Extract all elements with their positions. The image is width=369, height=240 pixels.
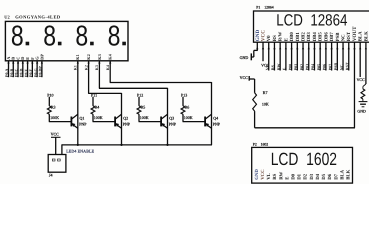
wire K1 to Q1 collector: [77, 61, 79, 145]
svg-text:8: 8: [11, 21, 24, 53]
svg-text:DB4: DB4: [312, 32, 318, 42]
LCD pin 4 wire stub: [273, 42, 275, 70]
svg-text:VCC: VCC: [240, 75, 249, 80]
svg-text:R5: R5: [141, 104, 146, 109]
U2 segment pin 2 wire stub: [12, 61, 14, 77]
svg-text:P01: P01: [293, 64, 298, 70]
bus corner down to J4: [61, 144, 63, 154]
svg-text:VCC: VCC: [51, 132, 60, 137]
svg-text:E: E: [282, 67, 287, 70]
resistor R3 zigzag: [47, 106, 51, 114]
wire K2 down to Q2: [121, 93, 123, 145]
svg-text:P12: P12: [137, 92, 143, 97]
svg-text:PSB: PSB: [333, 63, 338, 71]
svg-text:V0: V0: [266, 35, 272, 41]
LCD pin 9 wire stub: [302, 42, 304, 70]
svg-text:K3: K3: [97, 54, 102, 60]
svg-text:P2: P2: [253, 143, 257, 147]
wire R7 to VOUT riser: [254, 111, 256, 128]
7-segment display U2 digit 4 decimal point: [122, 42, 126, 46]
7-segment display U2 body box: [5, 21, 128, 60]
wire K3 vertical drop: [98, 61, 100, 89]
transistor Q4 base bar: [204, 117, 206, 127]
wire resistor to base: [138, 114, 140, 121]
svg-text:DB2: DB2: [300, 32, 306, 42]
svg-text:J4: J4: [49, 172, 53, 177]
transistor Q2 base bar: [114, 117, 116, 127]
J4 pad 2: [58, 159, 61, 161]
U2 segment pin 8 wire stub: [41, 61, 43, 77]
wire resistor to base: [48, 114, 50, 121]
U2 segment pin 6 wire stub: [31, 61, 33, 77]
wire K2 horizontal run: [88, 92, 121, 94]
transistor Q4 emitter diagonal: [205, 124, 211, 129]
U2 segment pin 4 wire stub: [22, 61, 24, 77]
svg-text:DB5: DB5: [318, 32, 324, 42]
svg-text:E: E: [283, 38, 289, 41]
svg-text:GND: GND: [357, 110, 366, 114]
svg-text:10K: 10K: [262, 102, 269, 107]
svg-text:K2: K2: [84, 65, 88, 70]
svg-text:DB6: DB6: [323, 32, 329, 42]
svg-text:DB3: DB3: [306, 32, 312, 42]
svg-text:K2: K2: [86, 54, 91, 60]
svg-text:P1: P1: [256, 6, 260, 10]
ground symbol (backlight): [359, 101, 368, 103]
transistor Q3 collector diagonal: [161, 114, 167, 119]
LCD pin 17 wire stub: [348, 42, 350, 70]
svg-text:12864: 12864: [264, 6, 274, 10]
junction dot: [77, 144, 79, 146]
transistor Q3 emitter arrow (PNP): [162, 123, 166, 127]
wire K4 vertical drop: [109, 61, 111, 83]
svg-text:PNP: PNP: [213, 121, 221, 126]
svg-text:BLK: BLK: [346, 169, 352, 179]
svg-text:K1: K1: [74, 65, 78, 70]
transistor Q2 collector diagonal: [115, 114, 121, 119]
resistor R5 zigzag: [137, 106, 141, 114]
svg-text:RS: RS: [270, 64, 275, 70]
svg-text:D3: D3: [309, 173, 315, 179]
svg-text:BLK: BLK: [363, 31, 369, 41]
svg-text:D2: D2: [303, 173, 309, 179]
svg-text:D4: D4: [315, 173, 321, 179]
svg-text:P07: P07: [327, 64, 332, 70]
wire LED enable bus: [62, 144, 212, 146]
LCD pin 6 wire stub: [285, 42, 287, 70]
resistor R4 zigzag: [91, 106, 95, 114]
resistor R6 zigzag: [181, 106, 185, 114]
svg-text:DP: DP: [39, 54, 44, 60]
svg-text:1602: 1602: [261, 143, 269, 147]
LCD pin 15 wire stub: [336, 42, 338, 70]
transistor Q1 emitter diagonal: [71, 124, 77, 129]
svg-text:LED4 ENABLE: LED4 ENABLE: [66, 149, 94, 154]
7-segment display U2 digit 2 decimal point: [58, 42, 62, 46]
svg-text:E: E: [284, 177, 290, 180]
svg-text:Q1: Q1: [80, 115, 85, 120]
svg-text:NC: NC: [339, 64, 344, 70]
wire P12 to resistor: [138, 97, 140, 106]
svg-text:GND: GND: [240, 55, 249, 60]
LCD 12864 box: [254, 11, 369, 42]
svg-text:R4: R4: [95, 104, 100, 109]
svg-text:DB0: DB0: [289, 32, 295, 42]
wire R8 to ground: [362, 99, 364, 101]
svg-text:Q2: Q2: [123, 115, 128, 120]
U2 segment pin 3 wire stub: [17, 61, 19, 77]
transistor Q3 base bar: [160, 117, 162, 127]
svg-text:PNP: PNP: [123, 121, 131, 126]
LCD pin 5 wire stub: [279, 42, 281, 70]
wire K3 horizontal run: [99, 87, 168, 89]
svg-text:P02: P02: [299, 64, 304, 70]
svg-text:8: 8: [75, 21, 88, 53]
wire K2 vertical drop: [88, 61, 90, 94]
svg-text:RS: RS: [272, 173, 278, 179]
svg-text:Q3: Q3: [169, 115, 174, 120]
U2 digit pin K4 arrowhead: [109, 61, 111, 64]
wire K4 horizontal run: [110, 82, 212, 84]
svg-text:K1: K1: [75, 54, 80, 60]
svg-text:P06: P06: [322, 64, 327, 70]
svg-text:GONGYANG-4LED: GONGYANG-4LED: [15, 15, 61, 20]
wire VCC bar to R7: [249, 78, 254, 80]
svg-text:P0.DP: P0.DP: [38, 66, 43, 77]
wire resistor to base: [92, 114, 94, 121]
7-segment display U2 digit 3 decimal point: [90, 42, 94, 46]
transistor Q1 collector diagonal: [71, 114, 77, 119]
svg-text:RS: RS: [272, 35, 278, 41]
LCD pin 8 wire stub: [296, 42, 298, 70]
svg-text:VCC: VCC: [260, 30, 266, 41]
svg-text:P10: P10: [47, 92, 53, 97]
J4 pad 1: [52, 159, 55, 161]
transistor Q4 collector diagonal: [205, 114, 211, 119]
LCD pin 14 wire stub: [331, 42, 333, 70]
svg-text:D5: D5: [321, 173, 327, 179]
transistor Q1 base bar: [70, 117, 72, 127]
svg-text:U2: U2: [4, 15, 9, 20]
svg-text:VCC: VCC: [260, 169, 266, 180]
transistor Q3 emitter diagonal: [161, 124, 167, 129]
svg-text:R3: R3: [51, 104, 56, 109]
wire K4 down to Q4: [211, 82, 213, 145]
ground bar symbol (LCD pin1): [250, 53, 252, 60]
svg-text:DB1: DB1: [295, 32, 301, 42]
resistor R8 zigzag: [361, 89, 365, 99]
svg-text:LCD 12864: LCD 12864: [276, 12, 347, 30]
wire P10 to resistor: [48, 97, 50, 106]
svg-text:RW: RW: [278, 172, 284, 180]
svg-text:VOUT: VOUT: [352, 26, 358, 41]
svg-text:R6: R6: [185, 104, 190, 109]
svg-text:PSB: PSB: [335, 32, 341, 42]
svg-text:P03: P03: [304, 64, 309, 70]
LCD pin 16 wire stub: [342, 42, 344, 70]
transistor Q1 emitter arrow (PNP): [72, 123, 76, 127]
svg-text:100K: 100K: [140, 115, 149, 120]
svg-text:R7: R7: [263, 90, 268, 95]
svg-text:K4: K4: [108, 53, 113, 59]
svg-text:PNP: PNP: [79, 121, 87, 126]
LCD pin 18 VOUT wire riser: [353, 42, 355, 128]
svg-text:PNP: PNP: [169, 121, 177, 126]
svg-text:Q4: Q4: [213, 115, 218, 120]
svg-text:100K: 100K: [184, 115, 193, 120]
svg-text:P11: P11: [91, 92, 97, 97]
svg-text:K3: K3: [95, 65, 99, 70]
svg-text:BLA: BLA: [358, 31, 364, 41]
svg-text:8: 8: [43, 21, 56, 53]
LCD pin 20 BLK wire: [365, 42, 367, 84]
svg-text:LCD 1602: LCD 1602: [271, 149, 337, 169]
LCD pin 11 wire stub: [313, 42, 315, 70]
junction dot: [120, 144, 122, 146]
7-segment display U2 digit 1 decimal point: [26, 42, 30, 46]
svg-text:100K: 100K: [50, 115, 59, 120]
svg-text:8: 8: [108, 21, 121, 53]
transistor Q2 emitter diagonal: [115, 124, 121, 129]
svg-text:D1: D1: [297, 173, 303, 179]
svg-text:V0: V0: [264, 65, 269, 70]
LCD pin 1 GND wire: [256, 42, 258, 50]
LCD pin 3 wire stub: [268, 42, 270, 70]
svg-text:D0: D0: [291, 173, 297, 179]
U2 segment pin 5 wire stub: [27, 61, 29, 77]
svg-text:P13: P13: [181, 92, 187, 97]
svg-text:NC: NC: [340, 34, 346, 41]
svg-text:R/W: R/W: [278, 32, 284, 42]
svg-text:DB7: DB7: [329, 32, 335, 42]
svg-text:K4: K4: [106, 65, 110, 70]
svg-text:RST: RST: [345, 62, 350, 70]
svg-text:RW: RW: [276, 64, 281, 71]
wire P13 to resistor: [182, 97, 184, 106]
U2 digit pin K2 arrowhead: [87, 61, 89, 64]
wire BLK to resistor R8: [363, 84, 366, 87]
LCD pin 12 wire stub: [319, 42, 321, 70]
svg-text:P05: P05: [316, 64, 321, 70]
svg-text:VL: VL: [266, 173, 272, 180]
resistor R7 zigzag: [253, 93, 257, 111]
U2 digit pin K3 arrowhead: [98, 61, 100, 64]
U2 segment pin 1 wire stub: [8, 61, 10, 77]
U2 digit pin K1 arrowhead: [77, 61, 79, 64]
svg-text:P00: P00: [287, 64, 292, 70]
transistor Q4 emitter arrow (PNP): [206, 123, 210, 127]
LCD pin 19 BLA wire: [359, 42, 361, 77]
svg-text:GND: GND: [254, 169, 260, 180]
wire P11 to resistor: [92, 97, 94, 106]
LCD pin 10 wire stub: [308, 42, 310, 70]
svg-text:D7: D7: [333, 173, 339, 179]
svg-text:D6: D6: [327, 173, 333, 179]
svg-text:VCC: VCC: [357, 78, 365, 82]
LCD pin 7 wire stub: [291, 42, 293, 70]
svg-text:BLA: BLA: [339, 169, 345, 179]
transistor Q2 emitter arrow (PNP): [116, 123, 120, 127]
LCD 1602 box: [252, 147, 353, 183]
U2 segment pin 7 wire stub: [36, 61, 38, 77]
junction dot: [166, 144, 168, 146]
connector J4 box: [48, 155, 66, 173]
wire resistor to base: [182, 114, 184, 121]
svg-text:100K: 100K: [94, 115, 103, 120]
wire K3 down to Q3: [167, 88, 169, 145]
LCD pin 2 VCC wire: [262, 42, 264, 61]
LCD pin 13 wire stub: [325, 42, 327, 70]
svg-text:P04: P04: [310, 64, 315, 70]
